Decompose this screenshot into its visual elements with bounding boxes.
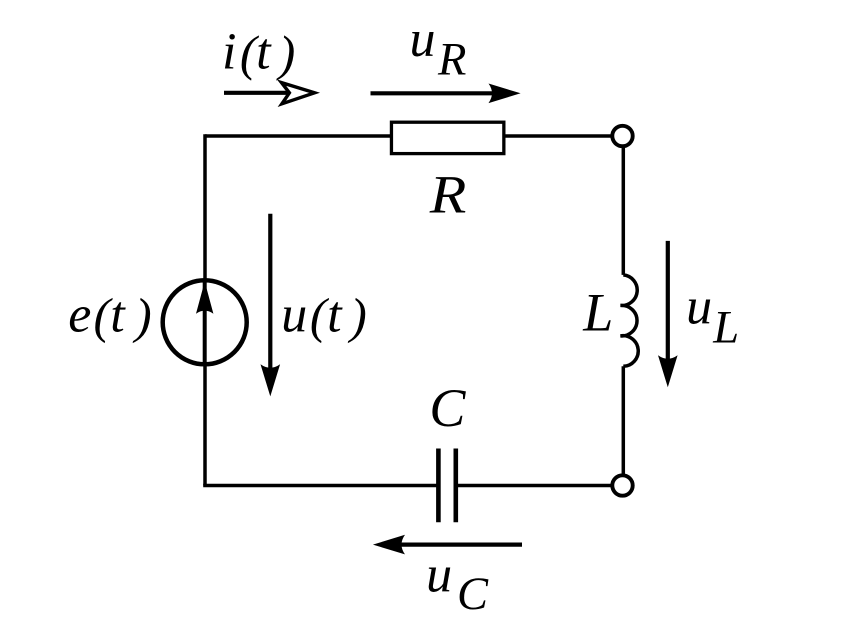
voltage arrow u_L (filled head, down): [658, 241, 678, 387]
svg-text:u: u: [426, 547, 452, 604]
voltage source e(t) (circle with up arrow): [163, 280, 247, 364]
svg-text:i: i: [222, 24, 236, 81]
svg-text:u: u: [686, 279, 712, 336]
voltage arrow u_R (filled head, right): [371, 84, 521, 104]
label u_C: [426, 547, 489, 620]
label u(t): [281, 286, 367, 343]
label i(t): [222, 24, 295, 81]
svg-text:e: e: [68, 286, 91, 343]
svg-text:t: t: [256, 24, 272, 81]
label C (capacitor): [429, 378, 466, 438]
voltage arrow u(t) (filled head, down): [261, 214, 281, 397]
svg-text:R: R: [429, 165, 467, 225]
svg-text:u: u: [281, 286, 307, 343]
voltage arrow u_C (filled head, left): [373, 535, 522, 555]
wire bottom-right (capacitor right plate to bottom terminal): [456, 484, 614, 488]
wire right-lower (inductor down to bottom terminal): [622, 366, 626, 476]
label L: [582, 283, 613, 343]
current arrow i(t) (open head): [224, 83, 315, 104]
svg-text:): ): [347, 288, 367, 344]
capacitor C (plates): [438, 449, 455, 523]
svg-text:t: t: [110, 286, 126, 343]
wire left (vertical through source): [203, 134, 207, 485]
svg-text:R: R: [437, 35, 466, 86]
inductor L (coil): [621, 275, 639, 366]
svg-text:C: C: [457, 569, 489, 620]
svg-text:): ): [276, 25, 296, 81]
node terminal bottom-right: [612, 475, 632, 495]
wire bottom-left (corner to capacitor left plate): [203, 484, 438, 488]
wire right-upper (top terminal down to inductor): [622, 146, 626, 275]
label u_R: [410, 11, 467, 86]
svg-text:L: L: [582, 283, 613, 343]
svg-text:L: L: [712, 303, 739, 354]
svg-text:t: t: [327, 286, 343, 343]
resistor R (body): [391, 122, 503, 153]
wire top (source top corner to right top terminal): [205, 134, 614, 138]
label e(t): [68, 286, 151, 343]
svg-text:C: C: [429, 378, 466, 438]
node terminal top-right: [612, 126, 632, 146]
label u_L: [686, 279, 739, 354]
svg-text:u: u: [410, 11, 436, 68]
svg-text:): ): [132, 288, 152, 344]
label R: [429, 165, 467, 225]
